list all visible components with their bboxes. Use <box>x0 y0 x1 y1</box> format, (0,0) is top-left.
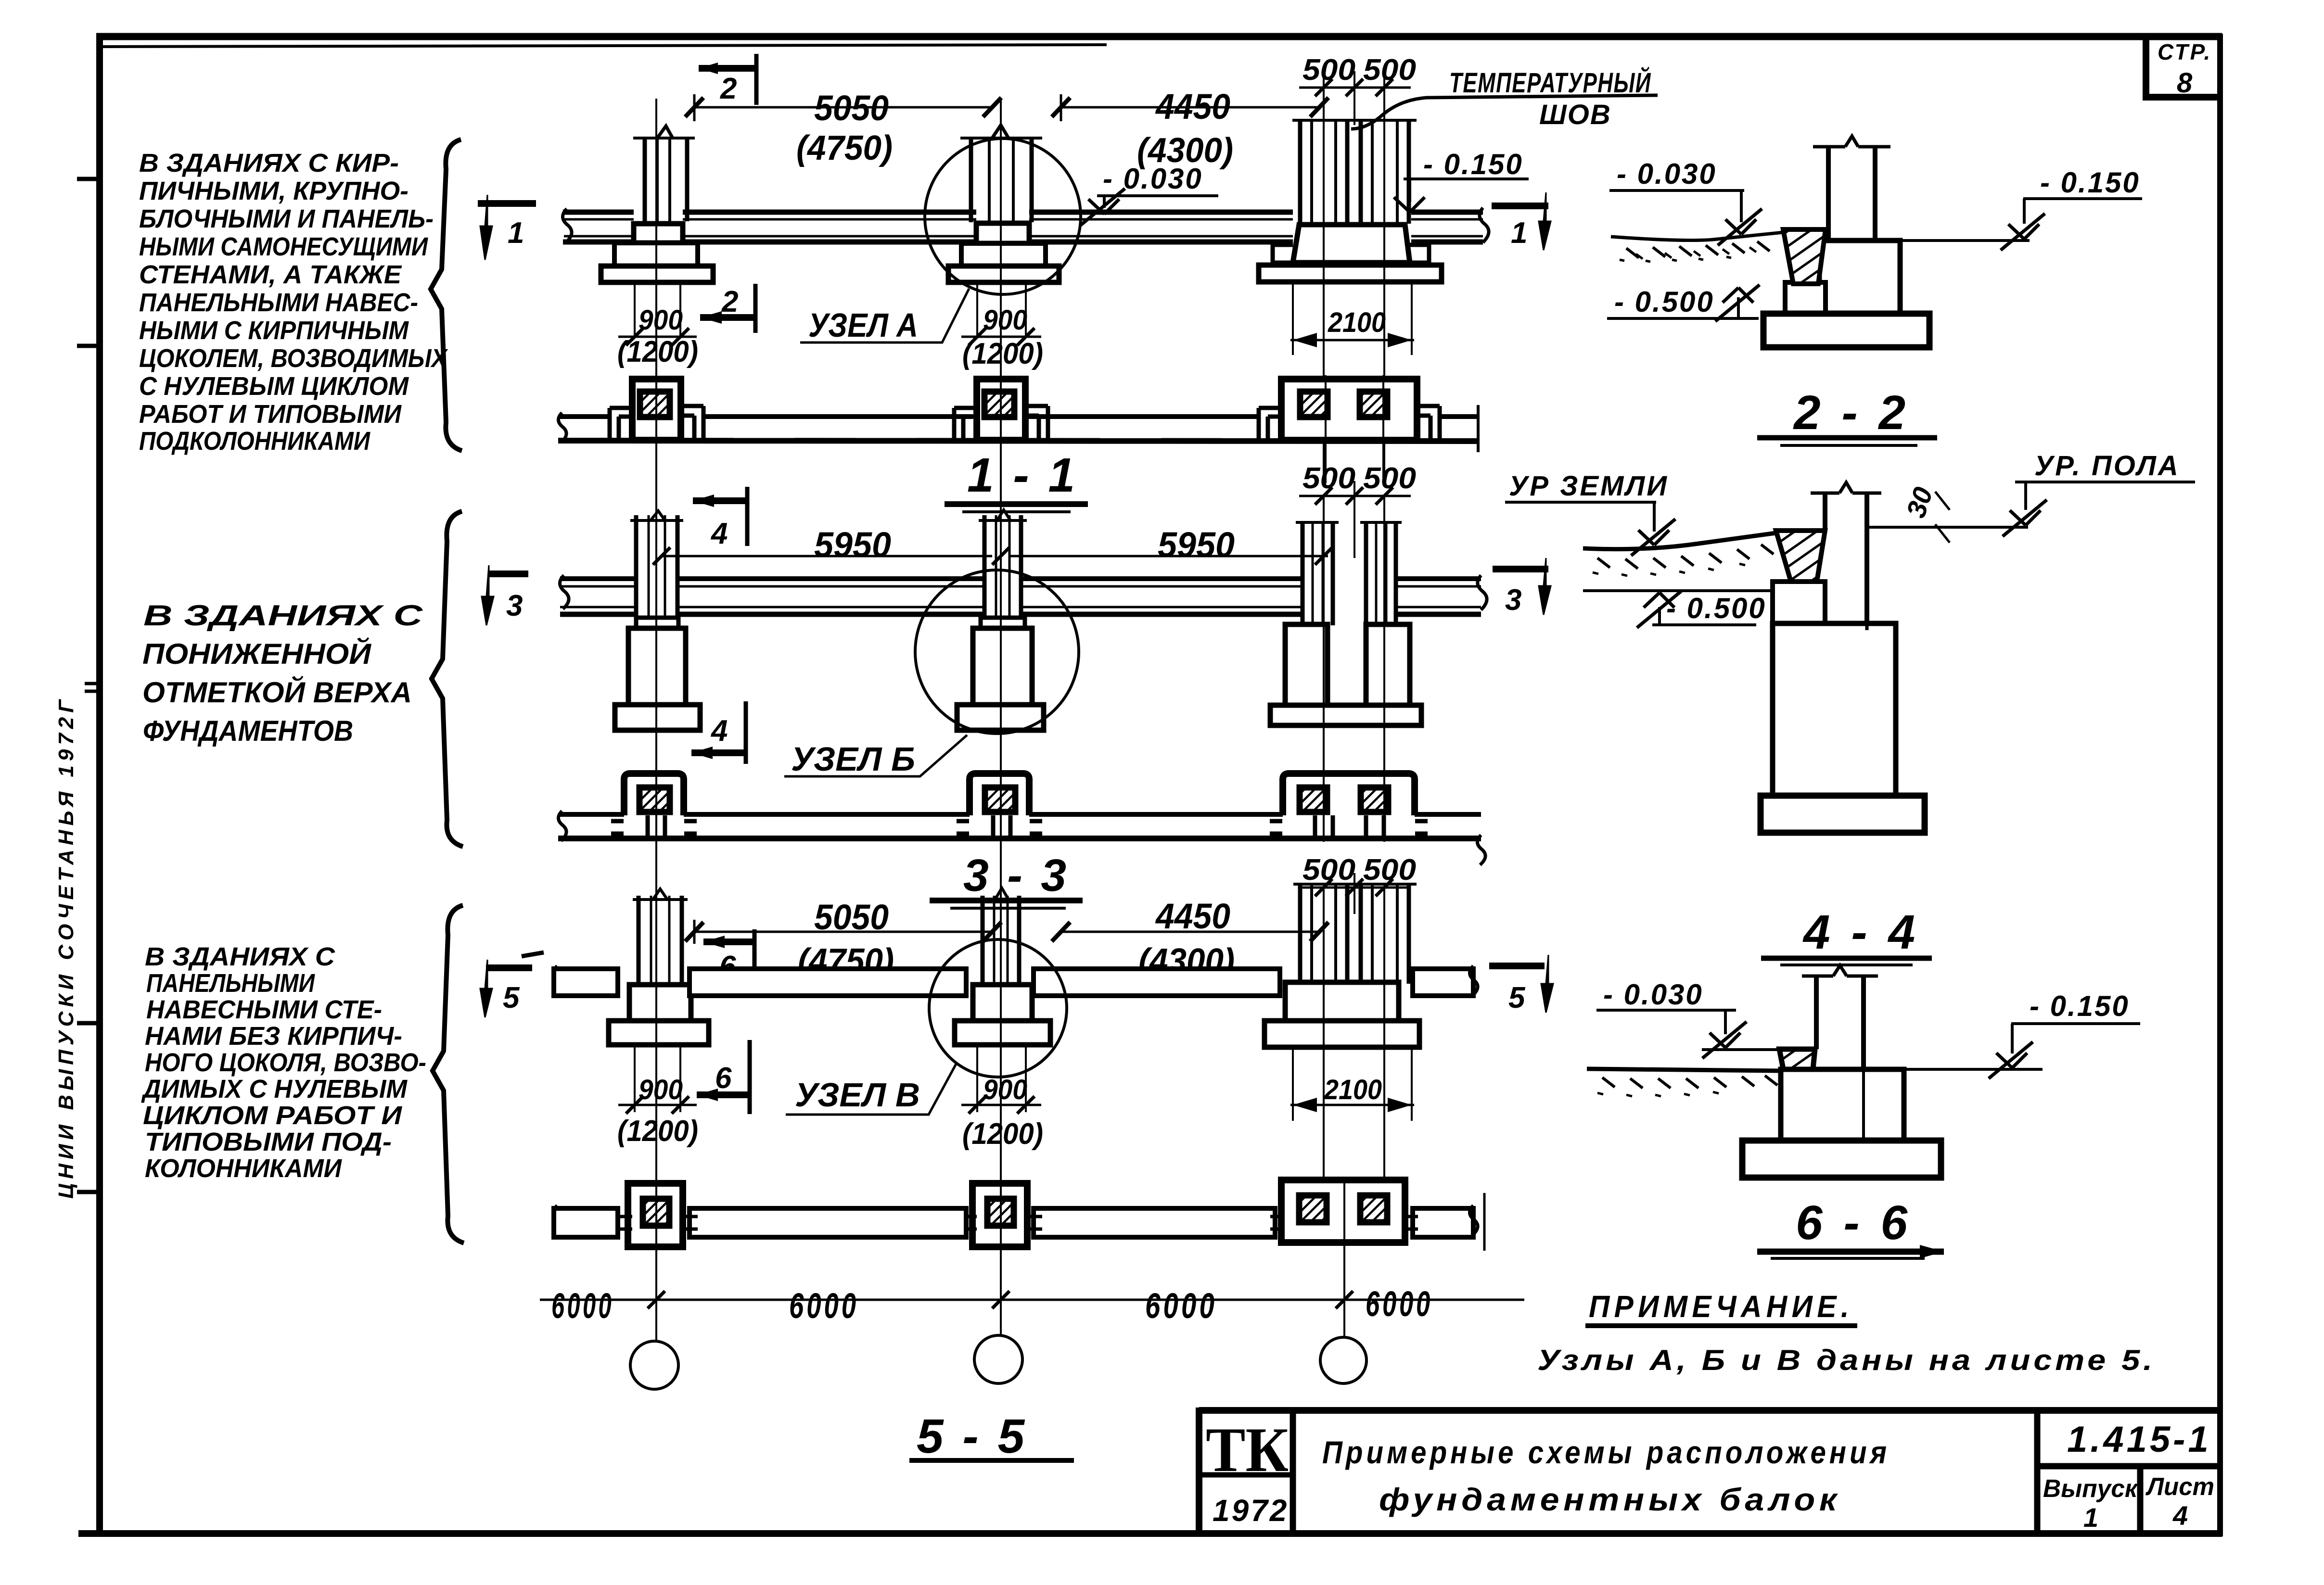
column row3 B <box>977 888 1025 986</box>
svg-text:ТИПОВЫМИ ПОД-: ТИПОВЫМИ ПОД- <box>145 1128 392 1156</box>
foundation beams row3 (separate) <box>553 966 1478 996</box>
svg-text:ПОДКОЛОННИКАМИ: ПОДКОЛОННИКАМИ <box>139 427 370 456</box>
svg-text:НАМИ БЕЗ КИРПИЧ-: НАМИ БЕЗ КИРПИЧ- <box>145 1022 402 1051</box>
svg-text:900: 900 <box>983 1074 1027 1105</box>
svg-text:1972: 1972 <box>1213 1493 1289 1528</box>
border tick y2478 <box>77 1190 103 1194</box>
column axis line C2 (joint pair right) <box>1383 71 1385 484</box>
svg-text:- 0.500: - 0.500 <box>1614 286 1714 318</box>
svg-text:Выпуск: Выпуск <box>2043 1475 2139 1503</box>
pedestal row1 A <box>601 224 713 282</box>
section flag 2 bottom <box>700 284 756 333</box>
svg-text:4: 4 <box>2172 1500 2188 1531</box>
beam cross-section 4-4 <box>1776 531 1825 582</box>
svg-text:- 0.150: - 0.150 <box>2030 990 2130 1022</box>
pedestal row2 twin <box>1270 624 1421 725</box>
dim 500 500 row1 <box>1299 53 1416 125</box>
plan row3 beams <box>553 1193 1484 1251</box>
ground line left 2-2 <box>1611 232 1783 262</box>
brace 3 <box>433 905 464 1243</box>
svg-text:СТР.: СТР. <box>2158 39 2212 64</box>
column row2 A <box>630 511 683 625</box>
svg-text:КОЛОННИКАМИ: КОЛОННИКАМИ <box>145 1154 342 1183</box>
svg-text:Узлы А, Б и В даны на лист: Узлы А, Б и В даны на листе 5. <box>1537 1344 2156 1376</box>
svg-text:НАВЕСНЫМИ СТЕ-: НАВЕСНЫМИ СТЕ- <box>146 995 382 1024</box>
level -0.030 section 2-2 <box>1609 158 1762 245</box>
floor line right 2-2 <box>1900 239 2030 242</box>
label 3-3 <box>930 850 1083 908</box>
twin columns row1 at joint <box>1292 120 1417 224</box>
sheet number box CTP 8 <box>2146 38 2219 99</box>
pedestal row1 B <box>948 223 1059 282</box>
dim 30 rotated <box>1900 483 1950 543</box>
title block frame <box>1199 1407 2218 1534</box>
svg-text:ШОВ: ШОВ <box>1539 99 1611 130</box>
pedestal row3 A <box>609 985 709 1045</box>
svg-text:6000: 6000 <box>1366 1284 1433 1324</box>
grid bubble 2 <box>974 1335 1022 1383</box>
svg-text:УР. ПОЛА: УР. ПОЛА <box>2034 450 2180 482</box>
svg-text:5: 5 <box>503 981 520 1014</box>
svg-text:6000: 6000 <box>551 1286 614 1326</box>
svg-text:ЦНИИ ВЫПУСКИ СОЧЕТАНЬЯ 1972Г: ЦНИИ ВЫПУСКИ СОЧЕТАНЬЯ 1972Г <box>54 696 78 1199</box>
svg-text:1: 1 <box>1511 216 1527 250</box>
svg-text:1.415-1: 1.415-1 <box>2067 1419 2211 1460</box>
section flag 1 left <box>478 195 536 260</box>
label UZEL B <box>784 735 967 778</box>
beam seat block 2-2 <box>1785 282 1826 314</box>
svg-text:(1200): (1200) <box>962 1117 1043 1151</box>
svg-text:НЫМИ САМОНЕСУЩИМИ: НЫМИ САМОНЕСУЩИМИ <box>139 232 428 261</box>
column section 4-4 <box>1811 482 1881 623</box>
title text <box>1322 1434 1890 1517</box>
plan row2 pier A <box>611 773 697 838</box>
svg-text:3: 3 <box>1505 583 1521 617</box>
dim 5050 row3 <box>685 897 1001 980</box>
svg-text:900: 900 <box>638 1074 683 1105</box>
column row3 A <box>633 889 688 986</box>
svg-text:1: 1 <box>508 216 524 250</box>
svg-text:5950: 5950 <box>1158 525 1235 565</box>
svg-text:ЦИКЛОМ РАБОТ И: ЦИКЛОМ РАБОТ И <box>143 1101 402 1130</box>
level -0.500 section 4-4 <box>1637 591 1766 628</box>
twin axis segments row2 <box>1324 496 1384 837</box>
svg-text:2: 2 <box>721 285 738 318</box>
plan row1 pier A <box>610 379 703 440</box>
svg-text:4: 4 <box>710 714 728 748</box>
dim 5050 row1 <box>685 88 1001 167</box>
footing 2-2 <box>1763 314 1929 347</box>
svg-text:500: 500 <box>1302 853 1355 887</box>
svg-text:ФУНДАМЕНТОВ: ФУНДАМЕНТОВ <box>143 715 353 747</box>
svg-text:4450: 4450 <box>1155 896 1230 936</box>
section flag 6 top <box>703 929 755 987</box>
label UR POLA <box>2003 450 2195 536</box>
beam cross-section 6-6 <box>1779 1049 1815 1098</box>
level -0.150 section 6-6 <box>1989 990 2140 1078</box>
label 4-4 <box>1761 905 1932 965</box>
svg-text:ПАНЕЛЬНЫМИ НАВЕС-: ПАНЕЛЬНЫМИ НАВЕС- <box>139 288 418 317</box>
svg-text:500: 500 <box>1363 53 1416 87</box>
dim 2100 under joint pair <box>1290 284 1414 355</box>
brace 1 <box>431 139 462 451</box>
foundation beam row2 (band) <box>560 575 1487 614</box>
svg-text:5050: 5050 <box>814 897 889 937</box>
svg-text:УЗЕЛ Б: УЗЕЛ Б <box>791 740 915 778</box>
plan row1 twin pier <box>1259 379 1440 440</box>
note text block 1 <box>139 149 448 456</box>
ground line 6-6 <box>1587 1069 1780 1096</box>
column axis line C1 (joint pair left) <box>1323 71 1325 484</box>
svg-text:6 - 6: 6 - 6 <box>1796 1196 1911 1250</box>
border bottom <box>78 1530 2222 1537</box>
svg-text:2100: 2100 <box>1328 307 1386 338</box>
plan row1 beam band <box>558 405 1478 452</box>
grid bubble 3 <box>1320 1337 1366 1383</box>
column axis line A <box>655 99 657 1340</box>
label PRIMECHANIE <box>1585 1289 1857 1326</box>
svg-text:6: 6 <box>715 1062 732 1095</box>
svg-text:500: 500 <box>1363 462 1416 495</box>
svg-text:5: 5 <box>1508 981 1526 1014</box>
border tick y2127 <box>77 1021 103 1026</box>
svg-text:500: 500 <box>1302 462 1355 495</box>
svg-text:Примерные схемы расположения: Примерные схемы расположения <box>1322 1434 1890 1470</box>
column row1 B <box>960 125 1042 223</box>
pedestal section 2-2 <box>1819 241 1900 314</box>
note text block 2 <box>142 599 423 747</box>
list box text <box>2145 1473 2214 1531</box>
svg-text:2100: 2100 <box>1324 1074 1382 1105</box>
svg-text:900: 900 <box>983 304 1027 336</box>
section flag 1 right <box>1492 192 1551 250</box>
svg-text:500: 500 <box>1363 853 1416 887</box>
brace 2 <box>432 511 463 847</box>
level -0.150 section 2-2 <box>2001 166 2142 250</box>
svg-text:В ЗДАНИЯХ С КИР-: В ЗДАНИЯХ С КИР- <box>139 149 399 178</box>
axis overlay lines through pedestals and plan piers <box>656 223 1384 1251</box>
plan row2 twin pier <box>1270 773 1428 838</box>
twin columns row2 <box>1296 522 1402 625</box>
node circle B <box>915 570 1079 734</box>
svg-text:ПАНЕЛЬНЫМИ: ПАНЕЛЬНЫМИ <box>146 969 315 998</box>
svg-text:фундаментных балок: фундаментных балок <box>1379 1482 1841 1517</box>
level mark -0.030 row1 <box>1081 163 1218 225</box>
column row1 A <box>633 126 695 222</box>
svg-text:4 - 4: 4 - 4 <box>1802 905 1919 959</box>
dim 900 (1200) under column B <box>961 282 1043 370</box>
dim 900 (1200) row3 A <box>617 1047 698 1148</box>
foundation beam row1 (band) <box>562 208 1489 242</box>
pedestal main 4-4 <box>1773 623 1896 796</box>
svg-text:ОТМЕТКОЙ ВЕРХА: ОТМЕТКОЙ ВЕРХА <box>142 676 412 709</box>
border tick y719 <box>77 344 103 348</box>
plan axis ticks row1 twin <box>1326 375 1383 483</box>
svg-text:3: 3 <box>506 589 523 622</box>
svg-text:6000: 6000 <box>789 1286 859 1326</box>
label 5-5 <box>909 1409 1074 1463</box>
svg-text:5950: 5950 <box>814 525 891 565</box>
svg-text:ЦОКОЛЕМ, ВОЗВОДИМЫХ: ЦОКОЛЕМ, ВОЗВОДИМЫХ <box>139 344 448 373</box>
plan row3 pier A <box>628 1183 683 1247</box>
pedestal row2 A <box>615 618 700 730</box>
section flag 4 bottom <box>691 701 747 764</box>
svg-text:900: 900 <box>638 304 683 336</box>
plan row3 twin pier <box>1281 1180 1405 1243</box>
svg-text:ПОНИЖЕННОЙ: ПОНИЖЕННОЙ <box>142 637 372 670</box>
label 1-1 <box>945 448 1088 512</box>
svg-text:500: 500 <box>1302 53 1355 87</box>
level -0.500 section 2-2 <box>1607 285 1760 321</box>
svg-text:8: 8 <box>2177 67 2193 99</box>
pedestal row3 B <box>955 985 1050 1045</box>
svg-text:В ЗДАНИЯХ С: В ЗДАНИЯХ С <box>145 942 335 971</box>
border left <box>96 34 103 1536</box>
svg-text:1: 1 <box>2083 1502 2098 1533</box>
svg-text:В ЗДАНИЯХ С: В ЗДАНИЯХ С <box>143 599 423 632</box>
svg-text:2: 2 <box>720 72 737 105</box>
note text block 3 <box>141 942 426 1183</box>
dim 5950 left row2 <box>653 525 992 565</box>
section flag 6 bottom <box>697 1040 751 1114</box>
svg-text:5 - 5: 5 - 5 <box>917 1409 1027 1463</box>
svg-text:- 0.500: - 0.500 <box>1666 592 1766 624</box>
dim 4450 row3 <box>1052 896 1328 980</box>
grid dimension line 6000 <box>540 1284 1524 1326</box>
joint axis to bubble <box>1343 1180 1345 1337</box>
pedestal row3 twin <box>1264 982 1419 1047</box>
node circle A <box>925 139 1081 294</box>
svg-text:1 - 1: 1 - 1 <box>967 448 1078 502</box>
svg-text:ДИМЫХ С НУЛЕВЫМ: ДИМЫХ С НУЛЕВЫМ <box>141 1075 408 1103</box>
plan row3 pier B <box>972 1183 1027 1247</box>
border top <box>96 37 2222 47</box>
section flag 3 right <box>1493 558 1551 617</box>
label 2-2 <box>1757 386 1937 445</box>
level -0.030 section 6-6 <box>1596 978 1780 1058</box>
svg-text:ТК: ТК <box>1206 1414 1289 1485</box>
label UR ZEMLI <box>1505 470 1675 556</box>
svg-text:БЛОЧНЫМИ И ПАНЕЛЬ-: БЛОЧНЫМИ И ПАНЕЛЬ- <box>139 204 434 233</box>
svg-text:УЗЕЛ В: УЗЕЛ В <box>795 1076 920 1114</box>
section flag 5 right <box>1489 955 1553 1014</box>
beam cross-section 2-2 <box>1783 229 1826 284</box>
column axis line B <box>1000 99 1002 1335</box>
footing 4-4 <box>1761 796 1925 833</box>
footing 6-6 <box>1742 1141 1941 1178</box>
svg-text:5050: 5050 <box>814 88 889 128</box>
level mark -0.150 row1 <box>1394 148 1529 212</box>
section flag 2 top <box>699 54 758 105</box>
svg-text:(1200): (1200) <box>617 1115 698 1148</box>
svg-text:УР ЗЕМЛИ: УР ЗЕМЛИ <box>1509 470 1669 502</box>
border right <box>2217 34 2223 1536</box>
label UZEL A <box>800 289 969 344</box>
label UZEL V <box>786 1063 957 1115</box>
svg-text:ПРИМЕЧАНИЕ.: ПРИМЕЧАНИЕ. <box>1589 1289 1853 1324</box>
column section 2-2 <box>1813 136 1890 314</box>
floor line 6-6 <box>1864 1068 2043 1071</box>
dim 900 (1200) row3 B <box>961 1047 1043 1151</box>
floor line 4-4 <box>1867 526 2028 529</box>
section flag 5 left <box>480 952 544 1017</box>
svg-text:3 - 3: 3 - 3 <box>963 850 1069 901</box>
svg-text:НОГО ЦОКОЛЯ, ВОЗВО-: НОГО ЦОКОЛЯ, ВОЗВО- <box>145 1048 426 1077</box>
svg-text:- 0.030: - 0.030 <box>1603 978 1703 1011</box>
plan row2 beam band <box>558 811 1485 865</box>
svg-text:(1200): (1200) <box>617 335 698 368</box>
node circle V <box>929 939 1067 1077</box>
dim 500 500 row3 <box>1299 853 1416 914</box>
dim 2100 row3 twin <box>1290 1049 1414 1121</box>
svg-text:4450: 4450 <box>1155 87 1230 127</box>
label Temperaturny shov <box>1351 67 1658 130</box>
pedestal row2 B <box>957 618 1044 730</box>
dim 5950 right row2 <box>992 525 1332 565</box>
grid bubble 1 <box>630 1341 678 1389</box>
dim 900 (1200) under column A <box>617 282 698 368</box>
svg-text:РАБОТ И ТИПОВЫМИ: РАБОТ И ТИПОВЫМИ <box>139 400 402 429</box>
border double tick y1421 <box>85 684 103 691</box>
dim 500 500 row2 <box>1299 462 1416 558</box>
plan row2 pier B <box>957 773 1042 838</box>
section flag 3 left <box>482 565 528 625</box>
svg-text:(4750): (4750) <box>796 129 893 167</box>
pedestal row1 joint pair <box>1259 225 1442 282</box>
svg-text:- 0.150: - 0.150 <box>2040 166 2140 199</box>
svg-text:НЫМИ С КИРПИЧНЫМ: НЫМИ С КИРПИЧНЫМ <box>139 316 409 345</box>
section flag 4 top <box>693 487 749 550</box>
svg-text:Лист: Лист <box>2145 1473 2214 1501</box>
svg-text:- 0.030: - 0.030 <box>1103 163 1203 195</box>
pedestal upper part 4-4 <box>1773 582 1825 623</box>
pedestal 6-6 <box>1781 1069 1904 1141</box>
svg-text:СТЕНАМИ, А ТАКЖЕ: СТЕНАМИ, А ТАКЖЕ <box>139 260 402 289</box>
plan row1 pier B <box>954 379 1048 440</box>
svg-text:2 - 2: 2 - 2 <box>1793 386 1909 440</box>
ground line 4-4 <box>1583 533 1776 591</box>
svg-text:4: 4 <box>710 517 728 550</box>
vypusk box text <box>2043 1475 2139 1533</box>
svg-text:(1200): (1200) <box>962 337 1043 370</box>
twin columns row3 <box>1293 884 1417 984</box>
svg-text:- 0.030: - 0.030 <box>1617 158 1717 190</box>
plan row3 joint marks <box>620 1217 1418 1229</box>
column row2 B <box>979 510 1027 625</box>
svg-text:ПИЧНЫМИ, КРУПНО-: ПИЧНЫМИ, КРУПНО- <box>139 177 409 205</box>
column section 6-6 <box>1802 965 1878 1069</box>
dim 4450 row1 <box>1052 87 1328 170</box>
svg-text:- 0.150: - 0.150 <box>1423 148 1523 180</box>
twin axis segments row3 <box>1324 889 1384 1241</box>
svg-text:С НУЛЕВЫМ ЦИКЛОМ: С НУЛЕВЫМ ЦИКЛОМ <box>139 372 409 401</box>
border tick y372 <box>77 177 103 181</box>
svg-text:УЗЕЛ А: УЗЕЛ А <box>808 306 918 344</box>
label 6-6 <box>1757 1196 1944 1258</box>
svg-text:ТЕМПЕРАТУРНЫЙ: ТЕМПЕРАТУРНЫЙ <box>1449 67 1651 99</box>
svg-text:6000: 6000 <box>1145 1286 1217 1326</box>
